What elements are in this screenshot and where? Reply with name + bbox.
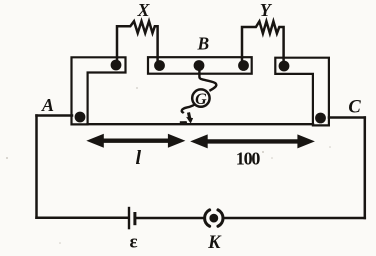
resistor X bbox=[117, 21, 158, 64]
jockey foot dash on wire bbox=[180, 121, 187, 123]
wire: node A horizontal lead bbox=[37, 114, 73, 117]
jockey arrowhead touching bridge wire bbox=[186, 117, 193, 124]
wire: bottom right segment (key to C side) bbox=[224, 217, 365, 220]
terminal dot middle strip centre (node B) bbox=[194, 60, 205, 71]
copper strip middle bbox=[148, 57, 252, 73]
battery cell: long plate bbox=[128, 207, 130, 230]
wire: bottom left segment (A side to battery) bbox=[37, 217, 129, 220]
svg-text:l: l bbox=[136, 147, 142, 169]
svg-text:K: K bbox=[207, 233, 222, 253]
svg-text:B: B bbox=[196, 34, 209, 54]
jockey arrow shaft bbox=[189, 112, 191, 120]
svg-text:A: A bbox=[41, 95, 54, 115]
battery cell: short plate bbox=[133, 212, 136, 225]
galvanometer G bbox=[192, 89, 209, 106]
resistor Y bbox=[242, 21, 284, 64]
wire: left outer vertical bbox=[35, 116, 38, 218]
bridge wire A to C bbox=[88, 123, 314, 125]
terminal dot A on left strip vertical bbox=[75, 112, 86, 123]
terminal dot middle strip right (Y left) bbox=[238, 60, 249, 71]
wire: right outer vertical bbox=[364, 118, 367, 219]
key K contact dot bbox=[209, 214, 218, 223]
copper strip left (L-shaped) bbox=[72, 57, 126, 124]
wire: squiggle from galvanometer to jockey bbox=[182, 104, 195, 113]
terminal dot on right strip (Y right) bbox=[279, 61, 290, 72]
svg-text:ε: ε bbox=[129, 231, 137, 252]
svg-text:G: G bbox=[195, 91, 207, 108]
wire: bottom middle segment (battery to key) bbox=[137, 217, 204, 220]
wire: squiggle from B to galvanometer bbox=[199, 66, 216, 91]
terminal dot on left strip (X left) bbox=[111, 60, 122, 71]
dimension arrow l (A to jockey) bbox=[86, 134, 185, 148]
key K symbol: arcs bbox=[205, 210, 223, 226]
svg-text:X: X bbox=[136, 0, 150, 20]
terminal dot C on right strip vertical bbox=[315, 113, 326, 124]
dimension arrow 100 (jockey to C) bbox=[190, 134, 315, 148]
terminal dot middle strip left (X right) bbox=[154, 60, 165, 71]
wire: node C horizontal lead bbox=[329, 116, 365, 119]
svg-text:C: C bbox=[348, 97, 361, 117]
copper strip right (L-shaped) bbox=[275, 58, 329, 126]
svg-text:100: 100 bbox=[236, 148, 261, 168]
